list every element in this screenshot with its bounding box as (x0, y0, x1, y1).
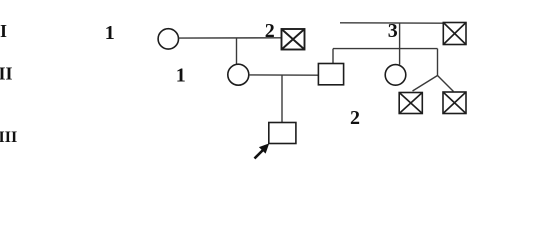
svg-text:1: 1 (176, 64, 186, 86)
individual I-1 circle (female) (158, 29, 178, 49)
twin branch left diagonal (413, 76, 438, 92)
svg-text:I: I (0, 21, 7, 41)
individual I-4 square with X (affected male, deceased) (443, 23, 466, 45)
svg-text:III: III (0, 129, 17, 146)
individual II-1 circle (female) (228, 64, 249, 85)
sibship drop to square II (left child) (332, 49, 334, 64)
svg-text:2: 2 (350, 107, 360, 129)
svg-text:2: 2 (265, 20, 275, 42)
marriage line I-1 to I-2 (179, 37, 281, 39)
sibship line (children of right couple) (333, 48, 438, 50)
svg-text:1: 1 (105, 22, 115, 44)
svg-text:II: II (0, 63, 13, 83)
individual II-3 circle (female, right) (385, 65, 406, 86)
descent line from right couple (399, 23, 401, 65)
proband arrow (255, 143, 270, 158)
twin branch right diagonal (438, 76, 454, 92)
descent line from couple II-1/II-2 (281, 75, 283, 122)
individual II-4 square with X (affected, deceased) (399, 93, 422, 114)
individual II-5 square with X (affected, deceased) (443, 92, 466, 114)
individual II-2 square (male) (318, 64, 343, 85)
individual III-1 square (proband male) (269, 123, 296, 144)
svg-text:3: 3 (388, 20, 398, 42)
marriage line I right couple (340, 22, 443, 24)
descent line from couple I-1/I-2 (236, 38, 238, 64)
marriage line II-1 to II-2 (249, 74, 319, 76)
individual I-2 square with X (affected male, deceased) (282, 29, 305, 50)
sibship drop right branch (437, 49, 439, 76)
